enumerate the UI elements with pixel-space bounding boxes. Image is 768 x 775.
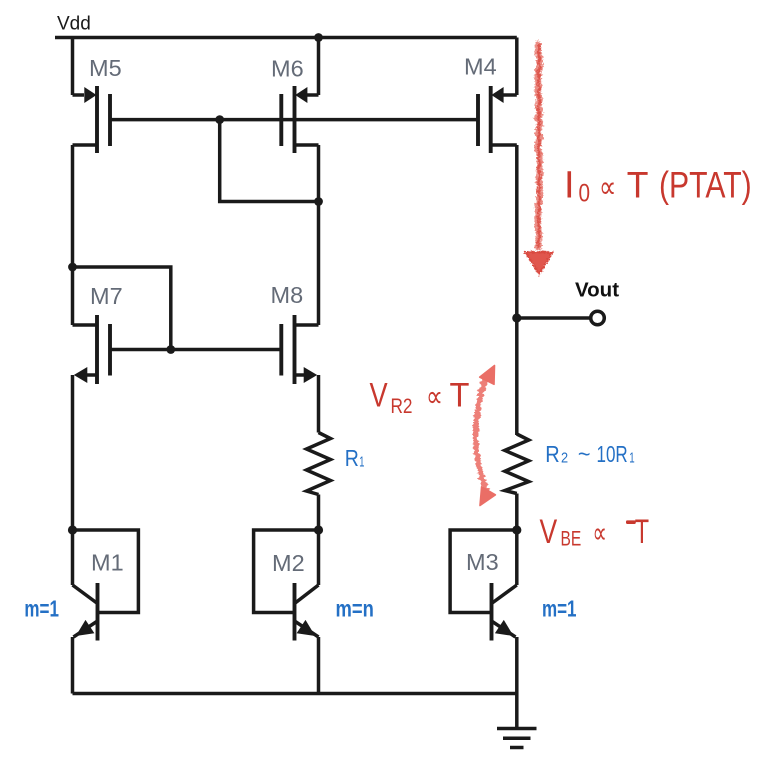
wire gate M7-M8 — [110, 348, 281, 352]
svg-text:Vdd: Vdd — [57, 14, 91, 35]
svg-text:1: 1 — [359, 453, 364, 470]
svg-text:M4: M4 — [464, 54, 497, 80]
wire M7 diode connection — [73, 267, 171, 350]
transistor M2 — [254, 530, 319, 694]
svg-text:M2: M2 — [272, 550, 305, 576]
svg-text:Vout: Vout — [575, 279, 619, 302]
wire M5 drain to M7 — [71, 145, 75, 325]
transistor M5 — [73, 38, 111, 154]
svg-text:~: ~ — [578, 441, 591, 467]
svg-text:M3: M3 — [466, 549, 499, 575]
annotation VR2 label — [370, 376, 470, 419]
svg-text:BE: BE — [561, 526, 582, 550]
resistor R1 label — [345, 446, 365, 472]
node Vout junction — [512, 313, 521, 322]
node M5-M7 junction — [68, 263, 77, 272]
svg-text:M8: M8 — [271, 282, 304, 308]
annotation PTAT current arrow — [526, 42, 553, 274]
node M2 collector junction — [314, 525, 323, 534]
annotation VBE label — [540, 513, 650, 551]
resistor R2 — [505, 434, 529, 494]
svg-text:R2: R2 — [391, 396, 413, 419]
svg-text:V: V — [540, 513, 558, 551]
node M6 drain junction — [314, 197, 323, 206]
wire R1 to M2 — [317, 495, 321, 531]
transistor M4 — [478, 38, 517, 154]
svg-text:T: T — [450, 377, 470, 415]
svg-text:M5: M5 — [89, 55, 122, 81]
svg-text:T: T — [635, 514, 649, 551]
transistor M3 — [450, 525, 521, 693]
transistor M6 — [281, 38, 318, 202]
wire M6 diode connection — [220, 120, 319, 202]
svg-text:I: I — [564, 165, 575, 207]
svg-text:10R: 10R — [597, 443, 628, 468]
ground — [497, 729, 537, 748]
svg-text:M1: M1 — [91, 550, 124, 576]
Vdd rail — [55, 36, 517, 40]
svg-text:R: R — [545, 441, 559, 468]
resistor R1 — [307, 433, 331, 495]
svg-text:m=1: m=1 — [542, 597, 577, 622]
svg-text:(PTAT): (PTAT) — [659, 165, 752, 207]
transistor M1 — [68, 525, 138, 693]
svg-text:∝: ∝ — [426, 380, 443, 413]
wire gate rail M5-M6-M4 — [110, 118, 478, 122]
node gate junction — [215, 115, 224, 124]
terminal Vout — [591, 311, 605, 325]
svg-text:1: 1 — [629, 449, 634, 466]
node Vdd-M6 junction — [314, 33, 323, 42]
wire to ground symbol — [515, 694, 519, 729]
svg-text:M7: M7 — [90, 283, 123, 309]
svg-text:∝: ∝ — [593, 517, 607, 550]
transistor M8 — [281, 315, 318, 433]
wire M4 drain to Vout — [515, 145, 519, 435]
svg-text:∝: ∝ — [599, 170, 616, 205]
transistor M7 — [73, 315, 111, 530]
annotation I0 PTAT label — [564, 164, 752, 207]
wire R2 to M3 — [515, 494, 519, 531]
svg-text:M6: M6 — [271, 56, 304, 82]
svg-text:R: R — [345, 446, 359, 472]
wire ground rail — [73, 692, 517, 696]
wire Vout stub — [517, 316, 590, 320]
wire M6 drain to M8 drain — [317, 202, 321, 326]
svg-text:V: V — [370, 376, 389, 415]
svg-text:T: T — [627, 164, 649, 206]
svg-text:2: 2 — [561, 448, 568, 465]
annotation VR2 arc arrow — [476, 366, 496, 506]
svg-text:0: 0 — [579, 179, 591, 207]
svg-text:m=n: m=n — [336, 597, 374, 622]
resistor R2 label — [545, 441, 634, 468]
node M7 gate junction — [166, 345, 175, 354]
svg-text:m=1: m=1 — [24, 597, 59, 622]
